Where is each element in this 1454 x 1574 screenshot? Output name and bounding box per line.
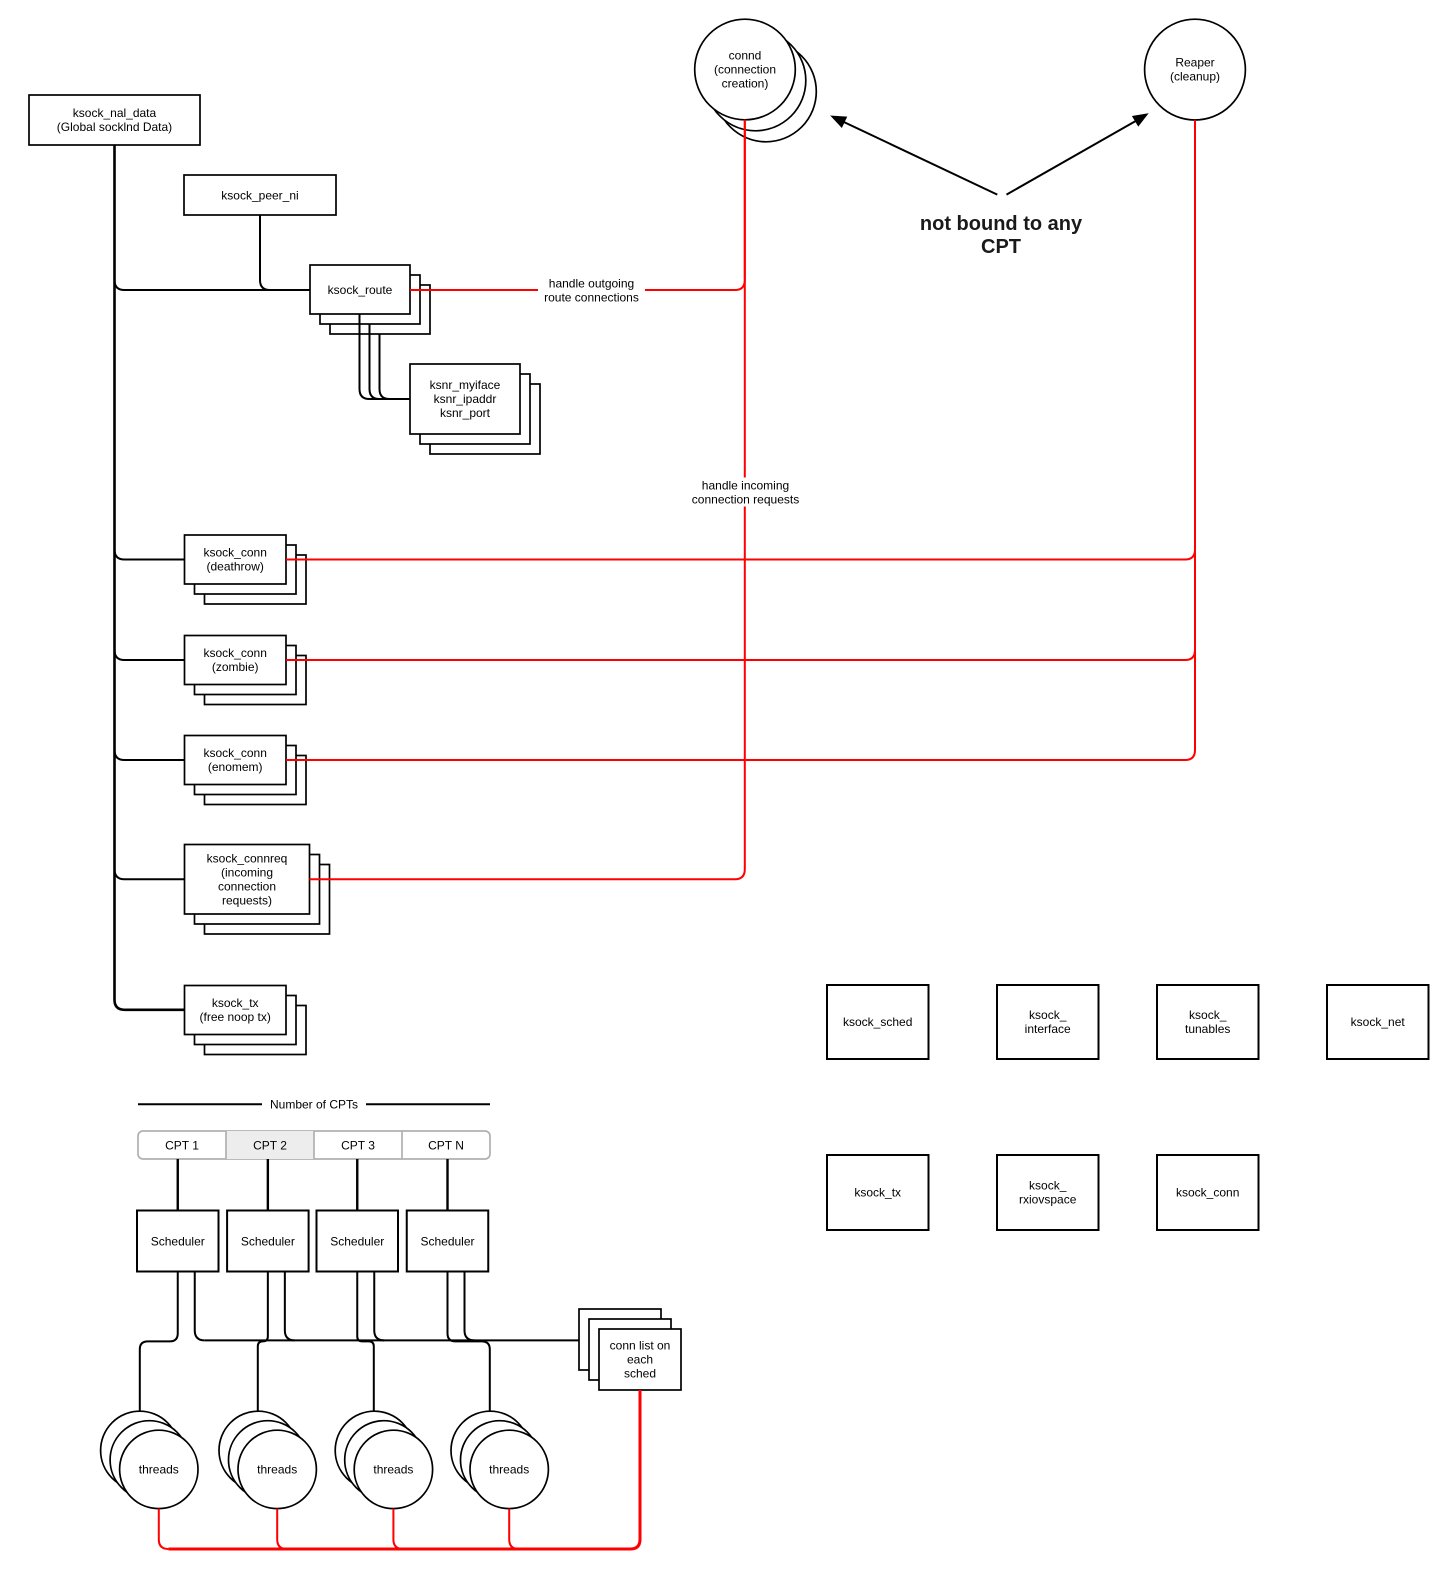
svg-text:each: each [627,1353,653,1367]
wire red threads 1 drop [159,1509,169,1549]
svg-text:ksock_: ksock_ [1189,1008,1227,1022]
node Number of CPTs label [138,1103,262,1105]
box Scheduler 4 [407,1211,489,1272]
wire red ksock_connreq to connd [309,120,744,879]
svg-text:(enomem): (enomem) [208,760,263,774]
svg-text:threads: threads [489,1462,529,1476]
svg-text:(free noop tx): (free noop tx) [200,1010,271,1024]
wire spine branch [115,650,185,660]
svg-text:ksock_tx: ksock_tx [854,1186,901,1200]
svg-text:(cleanup): (cleanup) [1170,70,1220,84]
svg-text:(zombie): (zombie) [212,660,259,674]
wire Scheduler 3 to conn list [374,1272,384,1341]
svg-text:handle incoming: handle incoming [702,478,789,492]
svg-text:(connection: (connection [714,63,776,77]
svg-text:CPT 1: CPT 1 [165,1139,199,1153]
svg-text:ksnr_ipaddr: ksnr_ipaddr [434,392,497,406]
svg-text:ksock_conn: ksock_conn [204,546,267,560]
box ksock_tunables [1157,985,1259,1059]
wire spine branch [115,750,185,760]
box ksock_net [1327,985,1429,1059]
svg-text:CPT N: CPT N [428,1139,464,1153]
wire red ksock_route to connd [410,120,745,290]
svg-text:ksock_conn: ksock_conn [204,646,267,660]
stack ksock_route [330,285,430,334]
svg-text:Number of CPTs: Number of CPTs [270,1097,358,1111]
svg-text:creation): creation) [722,77,769,91]
wire red threads 4 drop [509,1509,519,1549]
svg-text:requests): requests) [222,893,272,907]
svg-text:ksock_net: ksock_net [1351,1015,1406,1029]
circle stack threads 2 [219,1411,297,1489]
wire red threads 2 drop [277,1509,287,1549]
wire Scheduler 1 to conn list [195,1272,205,1341]
wire Scheduler 1 to threads 1 [140,1272,178,1412]
wire Scheduler 2 to threads 2 [258,1272,268,1412]
svg-text:ksock_tx: ksock_tx [212,996,259,1010]
svg-text:connection: connection [218,879,276,893]
svg-text:CPT 3: CPT 3 [341,1139,375,1153]
svg-text:rxiovspace: rxiovspace [1019,1193,1077,1207]
svg-text:(Global socklnd Data): (Global socklnd Data) [57,120,172,134]
box ksock_sched [827,985,929,1059]
wire arrow to Reaper [1007,121,1136,195]
circle stack threads 3 [335,1411,413,1489]
svg-text:connection requests: connection requests [692,492,799,506]
wire Scheduler 4 to threads 4 [448,1272,490,1412]
wire red enomem to Reaper [286,120,1195,760]
box ksock_nal_data [29,95,200,145]
svg-text:(deathrow): (deathrow) [207,560,264,574]
node label handle incoming connection requests [691,478,800,507]
svg-text:ksock_nal_data: ksock_nal_data [73,106,157,120]
node CPT bar [138,1131,490,1159]
wire red zombie to Reaper [286,120,1195,660]
svg-text:(incoming: (incoming [221,865,273,879]
svg-text:sched: sched [624,1367,656,1381]
svg-text:ksock_: ksock_ [1029,1179,1067,1193]
wire Scheduler 3 to threads 3 [357,1272,374,1412]
svg-text:Scheduler: Scheduler [241,1235,295,1249]
svg-text:ksock_sched: ksock_sched [843,1015,912,1029]
stack ksock_tx (free noop tx) [205,1006,307,1055]
svg-text:threads: threads [257,1462,297,1476]
wire red conn list to threads [168,1390,640,1549]
wire spine branch [115,869,185,879]
svg-text:connd: connd [729,49,762,63]
svg-text:interface: interface [1025,1022,1071,1036]
wire Scheduler 4 to conn list [465,1272,475,1341]
circle stack connd (connection creation) [716,41,817,142]
wire CPT cells to Scheduler boxes [177,1159,179,1211]
svg-text:ksock_conn: ksock_conn [204,746,267,760]
box ksock_rxiovspace [997,1155,1099,1230]
box ksock_conn [1157,1155,1259,1230]
wire shared horizontal to conn list [205,1339,579,1341]
box ksock_interface [997,985,1099,1059]
svg-text:ksock_: ksock_ [1029,1008,1067,1022]
stack ksock_conn (deathrow) [205,555,307,604]
svg-text:Scheduler: Scheduler [420,1235,474,1249]
wire spine branch [115,550,185,560]
svg-text:CPT 2: CPT 2 [253,1139,287,1153]
box Scheduler 2 [227,1211,309,1272]
svg-text:tunables: tunables [1185,1022,1230,1036]
svg-text:ksock_route: ksock_route [328,283,393,297]
wire arrow to connd [844,122,997,195]
circle stack threads 4 [451,1411,529,1489]
stack conn list on each sched [579,1309,661,1370]
svg-text:route connections: route connections [544,290,639,304]
svg-text:threads: threads [139,1462,179,1476]
svg-text:not bound to any: not bound to any [920,213,1083,235]
node label handle outgoing route connections [538,276,645,304]
wire red threads 3 drop [393,1509,403,1549]
wire spine branch [115,280,311,290]
wire ksock_route stack to ksnr stack (3 lines) [360,314,411,399]
stack ksock_conn (enomem) [205,756,307,805]
svg-text:ksock_connreq: ksock_connreq [207,851,288,865]
stack ksock_conn (zombie) [205,656,307,705]
svg-text:ksnr_myiface: ksnr_myiface [430,378,501,392]
box Scheduler 3 [317,1211,399,1272]
svg-text:conn list on: conn list on [610,1339,671,1353]
svg-text:ksock_peer_ni: ksock_peer_ni [221,189,298,203]
box ksock_tx [827,1155,929,1230]
wire spine from ksock_nal_data [115,145,185,1010]
svg-text:CPT: CPT [981,236,1021,258]
svg-text:Scheduler: Scheduler [151,1235,205,1249]
circle Reaper (cleanup) [1145,19,1246,120]
svg-text:ksock_conn: ksock_conn [1176,1186,1239,1200]
circle stack threads 1 [101,1411,179,1489]
wire red deathrow to Reaper [286,120,1195,560]
stack ksnr_myiface / ksnr_ipaddr / ksnr_port [430,384,540,454]
stack ksock_connreq (incoming connection requests) [205,865,330,935]
svg-text:threads: threads [373,1462,413,1476]
wire Scheduler 2 to conn list [285,1272,295,1341]
svg-text:Scheduler: Scheduler [330,1235,384,1249]
box Scheduler 1 [137,1211,219,1272]
svg-text:ksnr_port: ksnr_port [440,406,491,420]
svg-text:handle outgoing: handle outgoing [549,276,634,290]
box ksock_peer_ni [184,175,336,215]
svg-text:Reaper: Reaper [1175,56,1214,70]
wire ksock_peer_ni to ksock_route [260,215,310,290]
